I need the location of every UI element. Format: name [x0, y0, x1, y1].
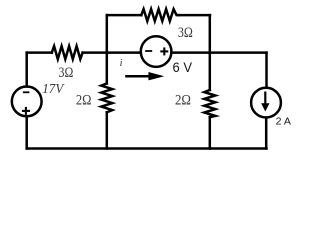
wire 6V source to right corner	[171, 51, 266, 54]
svg-text:17V: 17V	[42, 82, 64, 97]
svg-text:6 V: 6 V	[173, 59, 193, 75]
svg-text:2Ω: 2Ω	[175, 93, 191, 109]
svg-text:2 A: 2 A	[276, 116, 291, 128]
wire middle vertical lower	[106, 112, 109, 148]
wire left horizontal to R1	[27, 51, 52, 54]
V1 plus sign	[22, 107, 30, 115]
svg-text:3Ω: 3Ω	[59, 65, 74, 81]
V2 plus sign	[160, 47, 168, 55]
current source I1 2A circle	[251, 88, 281, 118]
wire middle vertical upper (node B branch)	[106, 15, 109, 83]
wire left branch lower	[25, 116, 28, 148]
svg-text:2Ω: 2Ω	[76, 93, 92, 109]
current arrow i	[125, 72, 164, 80]
wire top-right segment	[179, 14, 210, 17]
V2 minus sign	[145, 50, 152, 52]
wire top-left segment	[107, 14, 141, 17]
wire left branch upper	[25, 53, 28, 87]
svg-text:i: i	[120, 58, 123, 69]
wire bottom	[27, 147, 267, 150]
resistor R2 top 3ohm zigzag	[141, 9, 179, 21]
resistor R1 left 3ohm zigzag	[52, 46, 83, 59]
wire right branch upper	[265, 53, 268, 88]
resistor R3 middle 2ohm zigzag	[101, 84, 112, 113]
wire right-middle vertical lower	[209, 117, 212, 148]
svg-text:3Ω: 3Ω	[178, 25, 193, 41]
I1 arrow down	[261, 92, 269, 112]
V1 minus sign	[23, 91, 30, 93]
wire R1 to 6V source	[83, 51, 141, 54]
wire right-middle vertical upper	[209, 15, 212, 90]
voltage source V1 17V circle	[12, 87, 42, 117]
voltage source V2 6V circle	[141, 36, 172, 67]
resistor R4 right 2ohm zigzag	[204, 90, 215, 117]
wire right branch lower	[265, 118, 268, 149]
